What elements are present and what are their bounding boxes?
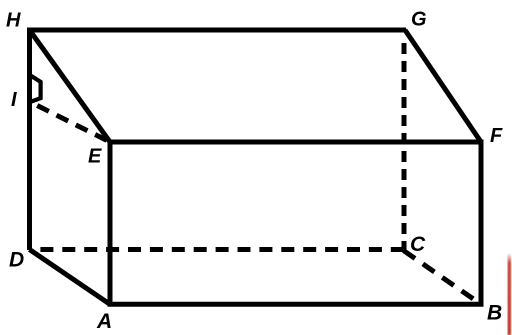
edge HG (top back) bbox=[27, 28, 406, 33]
edge GF (diagonal) bbox=[405, 30, 481, 142]
edge EA (front left vertical) bbox=[108, 142, 113, 307]
svg-text:B: B bbox=[487, 302, 502, 325]
right-angle mark at I bbox=[31, 76, 41, 102]
edge EF (top front) bbox=[108, 140, 484, 145]
edge HE (diagonal) bbox=[30, 30, 111, 142]
svg-text:C: C bbox=[410, 233, 426, 256]
edge AB (bottom front) bbox=[108, 302, 484, 307]
svg-text:A: A bbox=[96, 310, 112, 333]
edge CB (hidden, dashed) bbox=[404, 251, 482, 305]
svg-text:F: F bbox=[490, 125, 503, 147]
svg-text:E: E bbox=[88, 146, 102, 168]
edge DA (diagonal) bbox=[30, 250, 111, 305]
segment IE (hidden, dashed) bbox=[37, 106, 110, 143]
svg-text:H: H bbox=[6, 10, 21, 32]
svg-text:G: G bbox=[411, 9, 427, 31]
edge HD (left back vertical) bbox=[27, 28, 32, 251]
svg-text:D: D bbox=[9, 248, 24, 271]
edge GC (hidden, dashed) bbox=[402, 43, 407, 250]
svg-text:I: I bbox=[11, 89, 17, 111]
edge FB (front right vertical) bbox=[479, 142, 484, 307]
edge DC (hidden, dashed) bbox=[40, 247, 404, 252]
